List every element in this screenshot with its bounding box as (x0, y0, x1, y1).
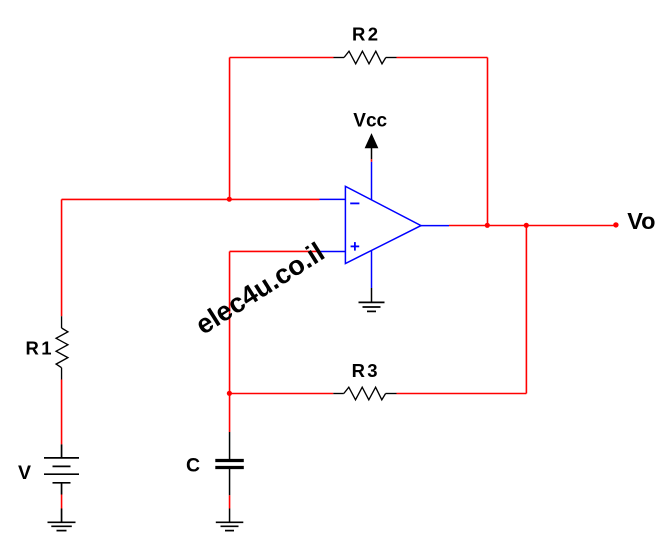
wire: battery V minus segment (61, 495, 63, 509)
svg-text:R: R (352, 360, 365, 381)
svg-text:2: 2 (368, 23, 378, 44)
svg-text:R: R (352, 23, 365, 44)
wire: R1 bottom to battery V plus (61, 380, 63, 445)
wire: vertical from non-inverting input down to node B (229, 251, 231, 393)
svg-text:Vo: Vo (627, 208, 655, 234)
wire: R3 left segment from node B (230, 393, 334, 395)
op-amp U1 plus pin symbol (351, 245, 360, 247)
battery V (44, 444, 79, 522)
junction: node A dot (227, 197, 232, 202)
wire: output to Vo terminal (449, 225, 616, 227)
svg-text:R: R (26, 338, 39, 359)
resistor R3 (333, 387, 396, 400)
op-amp U1 non-inverting input lead (320, 250, 346, 252)
wire: vertical from output node down to R3 right (525, 226, 527, 394)
wire: node B down to capacitor C (229, 394, 231, 433)
op-amp U1 triangle (345, 186, 421, 263)
op-amp U1 ground lead black (371, 288, 373, 302)
power Vcc stem (371, 148, 373, 159)
svg-text:3: 3 (367, 360, 377, 381)
capacitor C (215, 432, 244, 522)
junction: Vo terminal dot (613, 222, 618, 227)
wire: R2 left vertical (229, 58, 231, 200)
wire: non-inverting input horizontal (230, 250, 320, 252)
junction: output node dot at R2 feedback (485, 223, 490, 228)
svg-text:C: C (186, 455, 200, 477)
wire: node A horizontal from R1 top to op-amp inverting input (62, 198, 320, 200)
op-amp U1 Vcc supply lead (371, 162, 373, 200)
svg-text:Vcc: Vcc (353, 111, 387, 132)
svg-text:1: 1 (41, 338, 51, 359)
wire: R2 top left segment (230, 57, 334, 59)
wire: R3 right segment (397, 393, 527, 395)
resistor R2 (334, 51, 397, 64)
junction: output node dot at R3 branch (524, 223, 529, 228)
junction: node B dot (227, 391, 232, 396)
ground: below capacitor C (216, 522, 244, 530)
ground: below battery V (48, 522, 76, 530)
power Vcc arrow (365, 134, 377, 148)
op-amp U1 ground lead blue (371, 250, 373, 288)
op-amp U1 inverting input lead (320, 198, 346, 200)
wire: R2 right vertical down to output node (487, 58, 489, 226)
wire: Vcc net marker segment (371, 159, 373, 162)
wire: R2 top right segment (397, 57, 488, 59)
wire: vertical from node A down to R1 (61, 199, 63, 316)
op-amp U1 minus pin symbol (350, 202, 359, 204)
op-amp U1 output lead (421, 225, 449, 227)
wire: capacitor C bottom segment (229, 495, 231, 508)
resistor R1 (56, 316, 68, 379)
svg-text:V: V (18, 462, 31, 484)
ground: below op-amp U1 (359, 302, 385, 311)
